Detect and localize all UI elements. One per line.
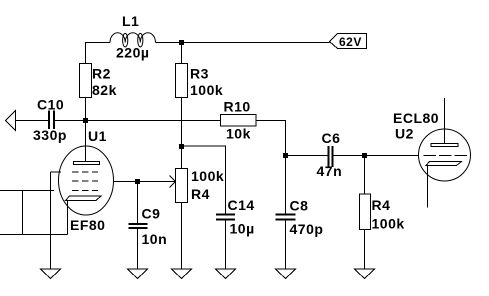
svg-text:R10: R10 [224,99,251,115]
svg-text:10k: 10k [226,126,251,142]
svg-text:U2: U2 [395,126,414,142]
svg-text:R2: R2 [92,66,111,82]
svg-text:R3: R3 [190,66,209,82]
svg-text:ECL80: ECL80 [393,110,439,126]
svg-text:82k: 82k [92,82,117,98]
svg-text:330p: 330p [33,127,67,143]
svg-text:100k: 100k [372,216,405,232]
svg-text:C6: C6 [322,130,341,146]
svg-text:C14: C14 [228,197,255,213]
svg-text:470p: 470p [290,221,324,237]
svg-text:C8: C8 [290,198,309,214]
svg-text:10n: 10n [142,231,168,247]
svg-text:100k: 100k [191,168,224,184]
svg-text:100k: 100k [190,82,223,98]
svg-text:62V: 62V [339,35,362,49]
svg-text:R4: R4 [372,197,391,213]
svg-text:220µ: 220µ [116,45,149,61]
svg-text:47n: 47n [317,163,343,179]
svg-text:C9: C9 [142,206,161,222]
svg-text:10µ: 10µ [230,221,255,237]
svg-text:R4: R4 [191,186,210,202]
svg-text:U1: U1 [88,128,107,144]
svg-text:L1: L1 [122,13,139,29]
svg-text:EF80: EF80 [70,217,105,233]
svg-text:C10: C10 [37,97,64,113]
